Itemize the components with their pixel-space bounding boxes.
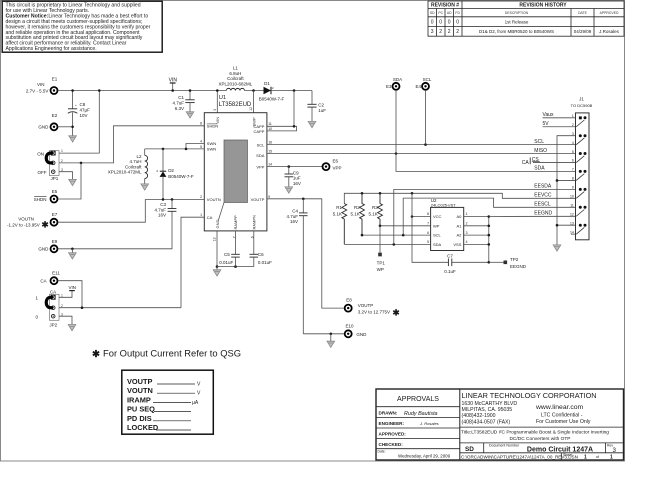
inductor L2 — [108, 149, 148, 184]
svg-text:2: 2 — [466, 222, 468, 226]
svg-text:J. Rosales: J. Rosales — [419, 421, 439, 426]
svg-text:CA: CA — [522, 160, 530, 166]
wire E4 down to SCL line — [425, 90, 427, 145]
svg-text:SWN: SWN — [207, 147, 216, 152]
svg-text:FD: FD — [455, 11, 460, 15]
svg-text:OFF: OFF — [38, 170, 47, 175]
svg-text:LOCKED: LOCKED — [127, 423, 159, 432]
svg-text:(408)434-0507 (FAX): (408)434-0507 (FAX) — [462, 419, 511, 425]
svg-text:Applications Engineering for a: Applications Engineering for assistance. — [6, 46, 97, 52]
capacitor C9 — [285, 167, 301, 187]
svg-text:EEGND: EEGND — [510, 264, 527, 269]
title block frame — [376, 389, 624, 460]
terminal E6 VPP — [323, 158, 342, 170]
svg-text:24LC025-I/ST: 24LC025-I/ST — [431, 202, 456, 207]
connector J1 TO DC590B — [571, 97, 593, 240]
EEGND net wire — [489, 215, 576, 217]
svg-text:✱: ✱ — [42, 220, 50, 230]
svg-text:D1& D2, from MBR0520 to B0540W: D1& D2, from MBR0520 to B0540WS — [479, 29, 554, 34]
svg-text:3: 3 — [613, 447, 617, 454]
U1 VIN pin 3 drop — [216, 91, 218, 113]
revision history table — [428, 1, 624, 36]
svg-text:1uF: 1uF — [293, 176, 301, 181]
test point TP2 EEGND — [489, 257, 527, 269]
svg-text:6.3V: 6.3V — [175, 106, 184, 111]
J1 pin numbers — [570, 114, 574, 234]
svg-text:1: 1 — [61, 149, 63, 153]
resistor R3 — [369, 193, 383, 226]
U1 rotated pin names — [215, 117, 257, 230]
U2 pin numbers — [427, 212, 467, 244]
wire U2 SCL pin6 to R2 — [362, 234, 431, 236]
svg-text:SDA: SDA — [256, 153, 265, 158]
svg-text:Coilcraft: Coilcraft — [125, 164, 142, 169]
svg-text:APPROVALS: APPROVALS — [397, 396, 439, 403]
svg-text:1st Release: 1st Release — [505, 19, 529, 24]
svg-text:L2: L2 — [136, 154, 142, 159]
svg-text:9: 9 — [572, 186, 574, 190]
svg-text:4.7uH: 4.7uH — [129, 159, 141, 164]
svg-text:8: 8 — [200, 122, 202, 126]
svg-text:VOUTP: VOUTP — [251, 197, 265, 202]
wire JP1 pin1 to VIN rail — [59, 91, 99, 154]
svg-text:14: 14 — [268, 162, 272, 166]
svg-text:B0540W-7-F: B0540W-7-F — [168, 174, 194, 179]
svg-text:5.1K: 5.1K — [351, 211, 360, 216]
svg-text:5: 5 — [200, 145, 202, 149]
svg-text:E3: E3 — [386, 84, 392, 89]
svg-text:R3: R3 — [372, 205, 378, 210]
ground below C9 — [285, 187, 293, 193]
terminal E10 GND — [345, 323, 367, 337]
U1 SWP pin 12 drop — [253, 91, 255, 113]
capacitor C5 on RAMPP — [219, 231, 240, 267]
svg-text:PU SEQ: PU SEQ — [127, 405, 155, 414]
svg-text:DESCRIPTION: DESCRIPTION — [505, 11, 529, 15]
ground below J1 — [553, 245, 561, 251]
ground on E9 rail — [71, 249, 73, 253]
svg-text:0.01uF: 0.01uF — [219, 260, 233, 265]
ground below L2 — [141, 184, 149, 190]
svg-text:C7: C7 — [447, 254, 453, 259]
svg-text:DRAWN:: DRAWN: — [379, 411, 398, 416]
SCL rail U1 pin16 to J1 pin4 — [267, 144, 576, 146]
svg-text:For Customer Use Only: For Customer Use Only — [536, 419, 591, 425]
svg-text:LTC Confidential -: LTC Confidential - — [541, 412, 583, 418]
junction E2/C8 — [71, 126, 74, 129]
svg-text:5: 5 — [427, 240, 429, 244]
svg-text:VOUTP: VOUTP — [127, 377, 153, 386]
svg-text:2: 2 — [572, 123, 574, 127]
svg-text:DC/DC Converters with OTP: DC/DC Converters with OTP — [509, 436, 570, 442]
svg-text:4: 4 — [572, 141, 574, 145]
jumper JP1 — [37, 149, 63, 181]
svg-text:WP: WP — [377, 267, 384, 272]
svg-text:LT3582EUD: LT3582EUD — [219, 102, 252, 108]
svg-text:10V: 10V — [80, 113, 88, 118]
svg-text:C9: C9 — [293, 170, 299, 175]
svg-text:14: 14 — [570, 230, 574, 234]
svg-text:5.1K: 5.1K — [369, 211, 378, 216]
svg-text:ENGINEER:: ENGINEER: — [379, 421, 405, 426]
svg-text:SHDN: SHDN — [34, 197, 47, 202]
wire E2 to C8 — [58, 126, 73, 128]
junction C8/top rail — [71, 89, 74, 92]
svg-text:SCL: SCL — [534, 139, 544, 145]
test point TP1 WP — [377, 226, 386, 272]
svg-text:1630 McCARTHY BLVD: 1630 McCARTHY BLVD — [462, 401, 518, 407]
svg-text:APPROVED:: APPROVED: — [379, 432, 407, 437]
svg-text:2.7V - 5.5V: 2.7V - 5.5V — [26, 88, 49, 93]
svg-text:U1: U1 — [219, 95, 226, 101]
wire E5 to JP1 pin2 net — [58, 163, 81, 199]
svg-text:CA: CA — [50, 290, 56, 295]
U1 right pin names — [251, 124, 266, 202]
svg-text:EEGND: EEGND — [534, 211, 552, 217]
svg-text:10: 10 — [268, 127, 272, 131]
svg-text:µA: µA — [192, 400, 199, 406]
svg-text:SWP: SWP — [252, 117, 257, 126]
svg-text:C3: C3 — [160, 202, 166, 207]
svg-text:LINEAR TECHNOLOGY CORPORATION: LINEAR TECHNOLOGY CORPORATION — [462, 391, 597, 400]
terminal E9 GND — [38, 239, 57, 252]
svg-text:7: 7 — [427, 222, 429, 226]
svg-text:VOUTP: VOUTP — [358, 303, 374, 308]
svg-text:SCL: SCL — [433, 233, 442, 238]
svg-text:VPP: VPP — [256, 164, 264, 169]
svg-text:3: 3 — [61, 312, 63, 316]
svg-text:GND: GND — [38, 247, 49, 252]
svg-text:2: 2 — [200, 195, 202, 199]
inductor L1 — [219, 66, 253, 91]
svg-text:16V: 16V — [293, 181, 301, 186]
svg-text:Rudy Bautista: Rudy Bautista — [404, 411, 438, 417]
svg-text:C6: C6 — [258, 252, 264, 257]
svg-text:XPL2010-682ML: XPL2010-682ML — [219, 82, 253, 87]
svg-text:16V: 16V — [158, 213, 166, 218]
svg-text:2: 2 — [439, 29, 442, 35]
connector J1 wires — [543, 117, 576, 119]
record box — [122, 370, 214, 434]
svg-text:3.2V to 12.775V: 3.2V to 12.775V — [358, 310, 390, 315]
wire JP2 pin1 to VIN flag — [59, 291, 72, 298]
svg-text:REVISION #: REVISION # — [431, 3, 459, 9]
wire E3 down to SDA line — [396, 90, 576, 171]
svg-text:0.01uF: 0.01uF — [258, 260, 272, 265]
svg-text:C1: C1 — [178, 95, 184, 100]
svg-text:A1: A1 — [456, 223, 462, 228]
terminal E7 VOUTN — [7, 212, 58, 230]
svg-text:4: 4 — [200, 139, 202, 143]
svg-text:11: 11 — [570, 204, 574, 208]
CAPP pins to D1 output — [293, 91, 295, 127]
svg-text:1: 1 — [200, 213, 202, 217]
svg-text:RAMPN: RAMPN — [252, 215, 257, 230]
diode D2 — [156, 149, 194, 200]
svg-text:CAPP: CAPP — [253, 129, 264, 134]
svg-text:VOUTN: VOUTN — [127, 386, 153, 395]
svg-text:SD: SD — [465, 446, 474, 453]
proprietary notice box — [2, 1, 162, 52]
svg-text:16V: 16V — [290, 219, 298, 224]
svg-text:VSS: VSS — [453, 242, 461, 247]
diode D1 — [259, 81, 285, 101]
svg-text:VOUTN: VOUTN — [18, 216, 34, 221]
ground below C2 — [308, 122, 316, 128]
ground below U1 GND pin — [216, 267, 218, 270]
svg-text:VIN: VIN — [215, 117, 220, 124]
svg-text:4: 4 — [466, 240, 468, 244]
svg-text:For Output Current Refer to QS: For Output Current Refer to QSG — [103, 348, 241, 359]
svg-text:1: 1 — [584, 455, 587, 461]
VIN net flag at JP2 — [68, 285, 76, 291]
svg-text:E4: E4 — [415, 84, 421, 89]
svg-text:EESCL: EESCL — [534, 202, 551, 208]
VPP wire U1 pin14 to E6 — [267, 166, 323, 168]
svg-text:Vaux: Vaux — [543, 112, 555, 118]
svg-text:✱: ✱ — [393, 307, 401, 317]
svg-text:15: 15 — [268, 149, 272, 153]
EEVCC/C7 drop wire — [412, 193, 448, 262]
terminal E8 VOUTP — [345, 298, 401, 318]
VOUTN rail — [145, 198, 204, 200]
svg-text:R2: R2 — [354, 205, 360, 210]
svg-text:3: 3 — [572, 132, 574, 136]
svg-text:2: 2 — [448, 29, 451, 35]
capacitor C2 — [307, 91, 326, 122]
svg-text:E9: E9 — [52, 239, 58, 244]
svg-text:APPROVED: APPROVED — [600, 11, 619, 15]
svg-text:VIN: VIN — [37, 82, 45, 87]
svg-text:0: 0 — [448, 20, 451, 26]
terminal E11 CA — [40, 271, 60, 285]
svg-text:C8: C8 — [80, 102, 86, 107]
svg-text:SCL: SCL — [257, 142, 266, 147]
svg-text:XPL2010-472ML: XPL2010-472ML — [108, 170, 142, 175]
svg-text:PC: PC — [438, 11, 443, 15]
svg-text:WP: WP — [433, 223, 440, 228]
svg-text:5.1K: 5.1K — [333, 211, 342, 216]
svg-text:R1: R1 — [336, 205, 342, 210]
svg-text:E11: E11 — [52, 271, 60, 276]
svg-text:0.1uF: 0.1uF — [444, 269, 456, 274]
EESCL net wire — [403, 198, 575, 235]
terminal E4 SCL — [415, 77, 431, 90]
svg-text:D2: D2 — [168, 168, 174, 173]
svg-text:VOUTN: VOUTN — [207, 197, 221, 202]
svg-text:TP2: TP2 — [510, 257, 519, 262]
wire JP2 pin2 CA net — [59, 307, 181, 309]
svg-text:6: 6 — [427, 231, 429, 235]
svg-text:L1: L1 — [233, 66, 239, 71]
svg-text:16: 16 — [268, 140, 272, 144]
ground below C1 — [186, 112, 194, 118]
svg-text:SWN: SWN — [207, 141, 216, 146]
wire U2 WP pin7 to R3 — [380, 225, 431, 227]
capacitor C6 on RAMPN — [250, 231, 273, 267]
svg-text:4.7uF: 4.7uF — [154, 207, 166, 212]
wire L1 to D1 — [245, 90, 264, 92]
MISO rail U1 pin15 to J1 pin5 — [267, 153, 576, 155]
svg-text:04/29/09: 04/29/09 — [574, 29, 592, 34]
svg-text:VIN: VIN — [68, 285, 76, 290]
svg-text:11: 11 — [268, 122, 272, 126]
terminal E3 SDA — [386, 77, 402, 90]
svg-text:Demo Circuit 1247A: Demo Circuit 1247A — [527, 446, 593, 453]
VIN net flag on top rail — [169, 77, 178, 90]
svg-text:www.linear.com: www.linear.com — [535, 404, 584, 411]
wire E11 to CA net — [58, 281, 82, 308]
U2 pin names — [433, 214, 462, 247]
svg-text:RAMPP: RAMPP — [233, 215, 238, 230]
svg-text:2: 2 — [61, 159, 63, 163]
capacitor C8 — [68, 91, 90, 136]
svg-text:4.7uF: 4.7uF — [172, 101, 184, 106]
svg-text:E1: E1 — [52, 77, 58, 82]
svg-text:A2: A2 — [456, 233, 462, 238]
svg-text:12: 12 — [570, 212, 574, 216]
svg-text:SDA: SDA — [534, 166, 545, 172]
net labels at J1 — [522, 112, 554, 217]
wire SWN pin5 rail — [145, 148, 205, 150]
svg-text:MISO: MISO — [534, 148, 547, 154]
svg-text:GND: GND — [38, 125, 49, 130]
svg-text:VPP: VPP — [333, 165, 342, 170]
svg-text:A0: A0 — [456, 214, 462, 219]
svg-text:E2: E2 — [52, 113, 58, 118]
svg-text:GND: GND — [215, 220, 220, 229]
svg-text:SDA: SDA — [433, 242, 442, 247]
svg-text:5: 5 — [572, 150, 574, 154]
svg-text:TO DC590B: TO DC590B — [571, 103, 593, 108]
svg-text:CA: CA — [40, 279, 46, 284]
svg-text:2: 2 — [456, 29, 459, 35]
resistor R2 — [351, 193, 365, 235]
svg-text:C5: C5 — [224, 252, 230, 257]
svg-text:D1: D1 — [264, 81, 270, 86]
svg-text:(408)432-1900: (408)432-1900 — [462, 413, 496, 419]
svg-text:2: 2 — [61, 304, 63, 308]
svg-text:5V: 5V — [543, 121, 550, 127]
svg-text:0: 0 — [439, 20, 442, 26]
wire C4 bottom to E10 — [303, 333, 344, 335]
svg-text:Title:LT3582EUD I²C Programm: Title:LT3582EUD I²C Programmable Boost &… — [461, 430, 609, 436]
terminal E2 GND — [38, 113, 57, 130]
svg-text:3: 3 — [431, 29, 434, 35]
svg-text:J.Rosales: J.Rosales — [599, 29, 620, 34]
svg-text:JP1: JP1 — [51, 176, 59, 181]
svg-text:Wednesday, April 29, 2009: Wednesday, April 29, 2009 — [398, 453, 451, 458]
svg-text:E6: E6 — [333, 158, 339, 163]
wire E7 to VOUTN rail — [58, 199, 146, 222]
capacitor C1 — [172, 91, 194, 112]
svg-text:7: 7 — [572, 168, 574, 172]
svg-text:1: 1 — [61, 293, 63, 297]
svg-text:10: 10 — [570, 195, 574, 199]
EEVCC top rail with resistors — [344, 193, 575, 203]
svg-text:E5: E5 — [52, 189, 58, 194]
svg-text:C2: C2 — [318, 103, 324, 108]
svg-text:GND: GND — [356, 332, 367, 337]
eeprom U2 24LC025 body — [431, 198, 464, 251]
svg-text:0: 0 — [456, 20, 459, 26]
svg-text:J1: J1 — [579, 97, 584, 102]
svg-text:3: 3 — [61, 168, 63, 172]
svg-text:DATE: DATE — [578, 11, 588, 15]
wire D1 to C2 — [271, 90, 312, 92]
wire E9 gnd rail to C3 bottom — [58, 211, 172, 249]
svg-text:47µF: 47µF — [80, 108, 91, 113]
J1 pin dots and shunt diagonals — [576, 116, 586, 234]
svg-text:TP1: TP1 — [377, 260, 386, 265]
jumper JP2 — [35, 290, 63, 328]
svg-text:SCL: SCL — [423, 77, 432, 82]
svg-text:Document Number: Document Number — [489, 444, 520, 448]
ground below C8 — [69, 136, 77, 142]
capacitor C7 — [444, 254, 489, 275]
U1 pin numbers — [200, 122, 272, 242]
wire JP2 pin3 to ground — [59, 316, 72, 324]
terminal E1 VIN — [26, 77, 58, 94]
wire U2 SDA pin5 to R1 — [344, 243, 430, 245]
svg-text:VIN: VIN — [169, 77, 178, 83]
svg-text:MILPITAS, CA. 95035: MILPITAS, CA. 95035 — [462, 407, 513, 413]
svg-text:8: 8 — [427, 212, 429, 216]
svg-text:E8: E8 — [346, 298, 352, 303]
svg-text:13: 13 — [570, 221, 574, 225]
wire JP1 pin2 to SHDN pin — [59, 126, 204, 163]
EESDA net wire — [394, 189, 576, 244]
svg-text:Sheet: Sheet — [563, 453, 572, 457]
svg-text:Coilcraft: Coilcraft — [227, 76, 244, 81]
wire CA pin — [181, 217, 204, 308]
wire SWN pin4 jog — [186, 144, 204, 149]
svg-text:C4: C4 — [292, 209, 298, 214]
svg-text:6: 6 — [572, 159, 574, 163]
svg-text:EESDA: EESDA — [534, 184, 552, 190]
svg-text:C:\ORCADWIN\CAPTURE\1247A\1247: C:\ORCADWIN\CAPTURE\1247A\1247A_00_REV3.… — [461, 454, 578, 459]
svg-text:0: 0 — [431, 20, 434, 26]
bottom gnd rail C5 C6 — [217, 266, 254, 268]
VOUTP rail U1 pin9 — [267, 199, 345, 308]
svg-text:✱: ✱ — [92, 349, 101, 360]
svg-text:1: 1 — [610, 455, 613, 461]
U1 GND pin 13 — [216, 231, 218, 267]
svg-text:3: 3 — [213, 109, 217, 111]
svg-text:1: 1 — [466, 212, 468, 216]
svg-text:E10: E10 — [345, 323, 354, 328]
capacitor C4 — [286, 199, 307, 334]
svg-text:-1.2V to -13.95V: -1.2V to -13.95V — [7, 223, 40, 228]
svg-text:3: 3 — [466, 231, 468, 235]
svg-text:Date:: Date: — [378, 449, 386, 453]
capacitor C3 — [154, 199, 176, 217]
svg-text:SD: SD — [430, 11, 435, 15]
svg-text:IRAMP: IRAMP — [127, 395, 151, 404]
U1 left pin names — [207, 124, 221, 220]
svg-text:1uF: 1uF — [318, 108, 326, 113]
svg-text:E7: E7 — [52, 212, 58, 217]
svg-text:JP2: JP2 — [49, 323, 57, 328]
svg-text:EEVCC: EEVCC — [534, 193, 552, 199]
wire JP1 pin3 to ground — [59, 172, 73, 180]
svg-text:4.7uF: 4.7uF — [286, 214, 298, 219]
svg-text:REVISION HISTORY: REVISION HISTORY — [519, 3, 567, 9]
svg-text:of: of — [596, 455, 599, 459]
resistor R1 — [333, 204, 347, 245]
svg-text:6.8uH: 6.8uH — [229, 71, 241, 76]
wire U2 VCC pin8 — [412, 216, 431, 218]
